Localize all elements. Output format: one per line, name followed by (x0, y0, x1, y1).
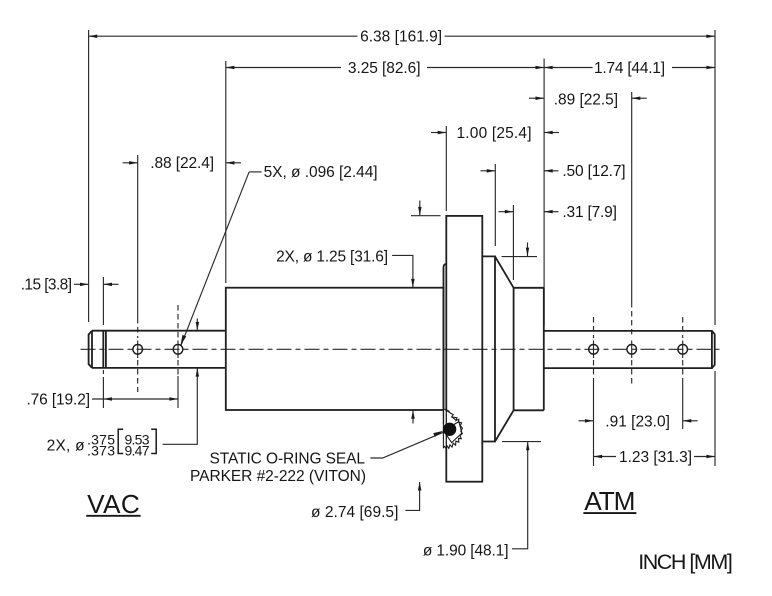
svg-text:INCH [MM]: INCH [MM] (638, 550, 733, 574)
svg-text:ATM: ATM (584, 486, 635, 516)
svg-text:5X, ø .096 [2.44]: 5X, ø .096 [2.44] (264, 164, 378, 181)
svg-text:.76 [19.2]: .76 [19.2] (27, 391, 91, 408)
svg-text:STATIC O-RING SEAL: STATIC O-RING SEAL (210, 450, 366, 467)
svg-text:.373: .373 (87, 442, 115, 458)
svg-text:.89 [22.5]: .89 [22.5] (554, 91, 618, 108)
svg-text:ø 1.90 [48.1]: ø 1.90 [48.1] (423, 543, 509, 560)
svg-text:2X, ø: 2X, ø (47, 438, 86, 455)
svg-text:3.25 [82.6]: 3.25 [82.6] (348, 60, 421, 77)
svg-text:2X, ø 1.25 [31.6]: 2X, ø 1.25 [31.6] (276, 248, 388, 265)
svg-text:.31 [7.9]: .31 [7.9] (562, 204, 617, 221)
svg-text:.91 [23.0]: .91 [23.0] (605, 413, 670, 430)
svg-text:1.74 [44.1]: 1.74 [44.1] (594, 60, 665, 77)
svg-text:6.38 [161.9]: 6.38 [161.9] (360, 28, 442, 45)
svg-text:VAC: VAC (87, 489, 140, 519)
svg-text:ø 2.74 [69.5]: ø 2.74 [69.5] (311, 504, 398, 521)
svg-text:.15 [3.8]: .15 [3.8] (21, 277, 72, 294)
svg-text:.88 [22.4]: .88 [22.4] (150, 155, 214, 172)
svg-text:PARKER #2-222 (VITON): PARKER #2-222 (VITON) (190, 468, 366, 485)
svg-text:9.47: 9.47 (125, 442, 150, 458)
svg-text:1.00 [25.4]: 1.00 [25.4] (457, 125, 532, 142)
svg-text:.50 [12.7]: .50 [12.7] (562, 163, 625, 180)
svg-text:1.23 [31.3]: 1.23 [31.3] (619, 449, 692, 466)
